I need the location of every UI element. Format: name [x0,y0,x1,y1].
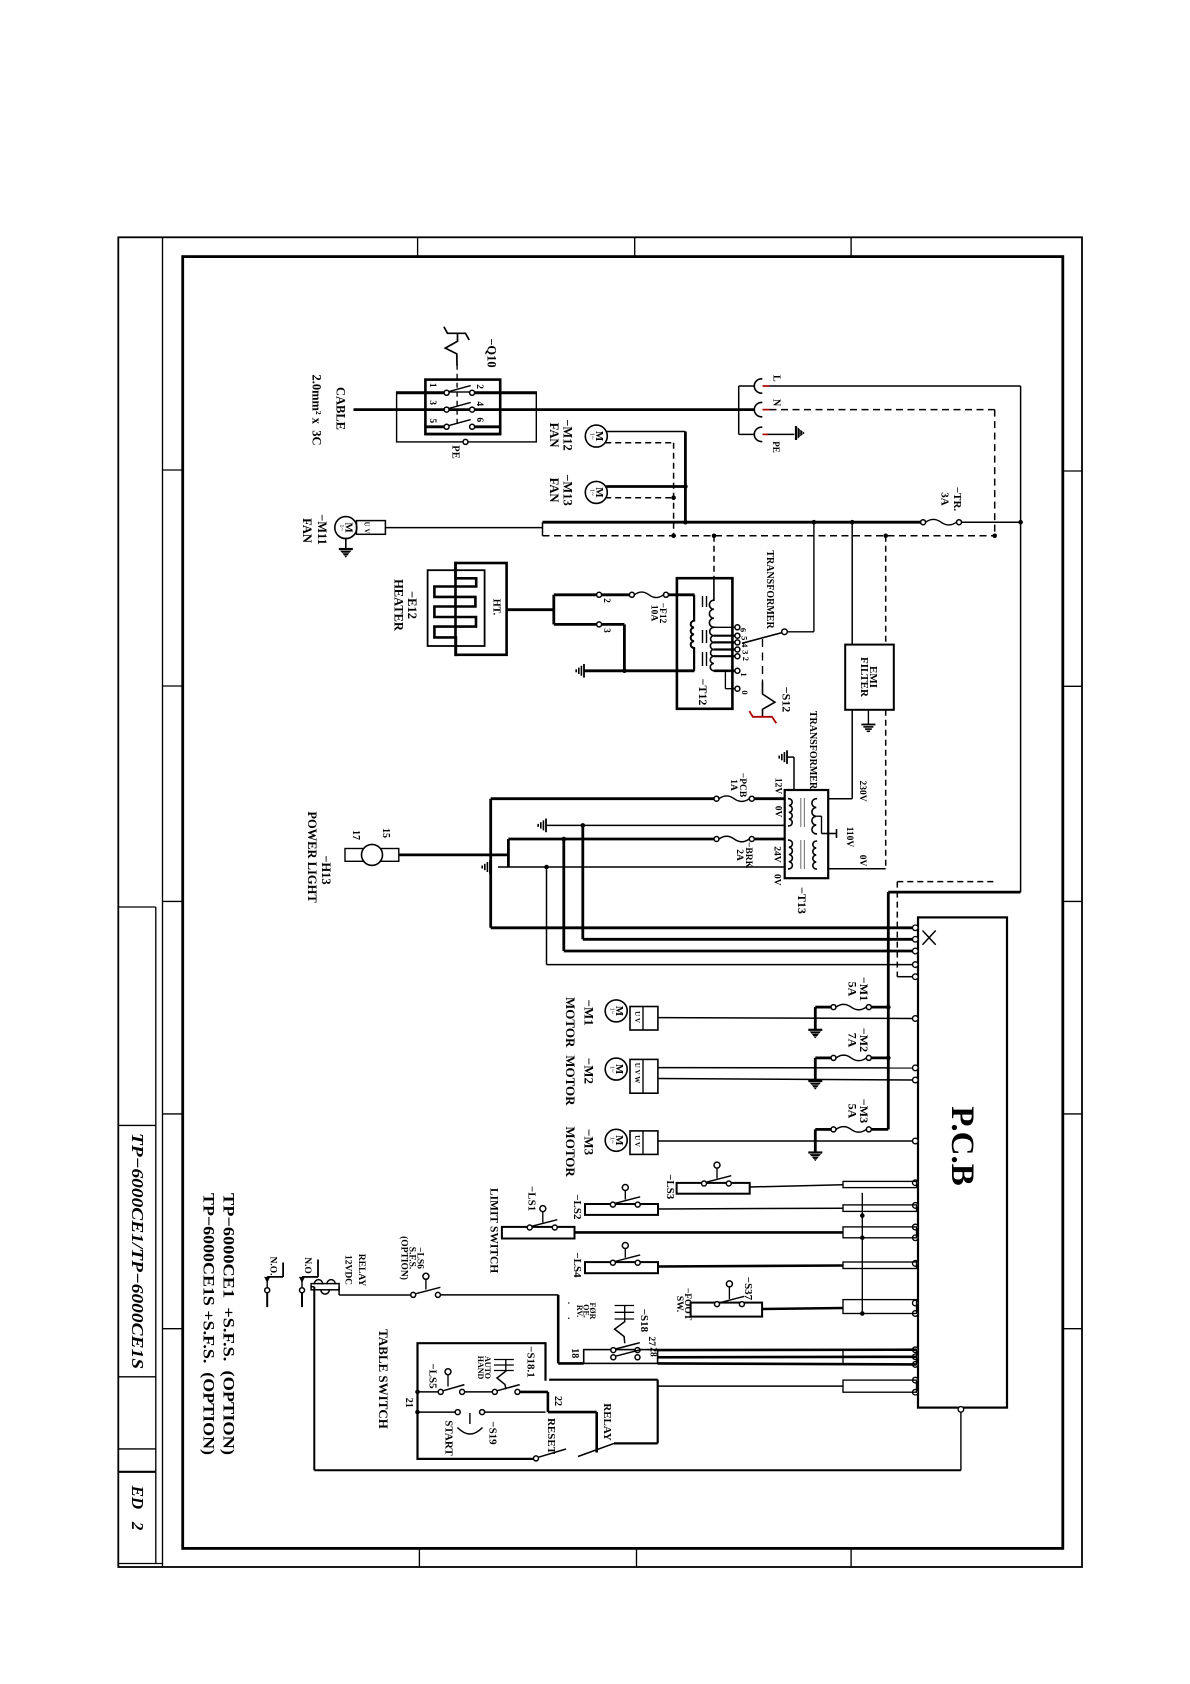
connector rect LS1 [843,1227,917,1238]
T12 tap 4 [714,641,735,643]
PCB box [918,917,1007,1407]
fan bus dashed [673,443,675,536]
svg-text:HT.: HT. [491,599,502,616]
limit switch LS2 [585,1204,658,1215]
bottom ruler tick 3 [850,1548,852,1567]
strip bottom dashed [543,535,995,537]
fuse TR [921,520,926,525]
junction M13b [671,495,676,500]
fan bus solid [684,432,687,523]
wire 18 net [658,1363,917,1364]
left ruler tick 1 [163,469,183,471]
PCB pin 7 [913,1065,919,1071]
wire lamp [399,854,509,857]
svg-text:N: N [771,399,782,407]
T12 secondary coil e [711,650,714,657]
ground T12 wire [584,669,695,672]
wire LS2 [658,1207,843,1210]
fuse M1 [831,1005,836,1010]
fuse M2 wire [815,1057,831,1060]
limit switch LS4 [585,1262,658,1273]
junction M1 fuse [886,1005,891,1010]
svg-text:−E12: −E12 [405,591,419,619]
T12 secondary coil d [710,642,714,649]
emi ground [861,724,875,726]
T13 sec coil 1 [812,799,816,834]
svg-text:24V: 24V [771,846,781,863]
motor M11 [335,517,357,539]
breaker Q10 link line [456,365,458,427]
motor M2 [605,1058,627,1080]
svg-text:7A: 7A [846,1033,860,1048]
strip top right [962,521,1021,523]
wire relay out [658,1385,843,1387]
svg-text:RELAY: RELAY [601,1403,613,1441]
title column divider 6 [118,1563,162,1565]
svg-text:−M1: −M1 [582,1000,597,1026]
svg-text:2: 2 [741,657,751,661]
wire LS1 [575,1231,844,1234]
wire 12V a [491,797,714,800]
T12 tap 1 [714,669,735,672]
svg-text:4: 4 [474,401,484,406]
wire N dashed down [994,410,996,536]
svg-text:−S12: −S12 [780,687,794,713]
T12 secondary coil a [709,600,714,627]
net 0V riser [581,825,584,939]
breaker Q10 contact 5-6 [444,424,449,429]
wire M11 [385,527,542,529]
ground M3 [808,1151,822,1153]
T13 core [800,798,802,827]
connector rect LS2 [843,1205,917,1212]
wire S18 r2 [658,1356,917,1359]
svg-text:−M12: −M12 [560,419,574,450]
top ruler tick 3 [850,237,852,256]
LS6 actuator [423,1273,429,1279]
live feed horiz [888,891,1020,894]
strip top [543,521,921,524]
wire 24V a [508,838,714,841]
switch S18.1 [492,1389,497,1394]
svg-text:FAN: FAN [547,478,561,503]
right ruler tick 3 [1063,900,1082,902]
svg-text:110V: 110V [844,827,854,848]
svg-text:28: 28 [647,1347,657,1357]
T12 core [702,596,704,607]
connector rect RELAY [843,1380,917,1392]
connector L [754,379,761,393]
PCB pin 8 [913,1077,919,1083]
T13 110V junction [816,815,821,817]
top ruler tick 2 [634,237,636,256]
transformer T13 box [785,790,829,878]
PCB pin 18 [913,1354,919,1360]
inlet stub L [739,385,755,387]
wire pcb pin2 [583,938,913,941]
svg-text:5A: 5A [846,1104,860,1119]
wire row1 a [418,1391,439,1393]
ground M11 [339,548,353,550]
wire 18 left [558,1362,584,1365]
drawing frame [183,257,1063,1549]
svg-text:2: 2 [474,384,484,389]
svg-text:21: 21 [403,1398,414,1408]
svg-text:RELAY: RELAY [356,1254,366,1287]
wire pcb pin1 [491,926,913,929]
breaker Q10 bottom bar [425,433,500,436]
title column divider 3 [118,1376,156,1378]
heater E12 outer box [456,563,507,655]
wire pcb pin5 stub [897,976,913,978]
T12 secondary coil c [711,636,714,643]
PCB pin 21 [913,1389,919,1395]
svg-text:1~: 1~ [589,489,596,496]
svg-text:U V W: U V W [633,1063,641,1084]
junction strip fans [683,520,688,525]
T13 ground wire [787,756,794,758]
wire pcb bottom [960,1412,962,1470]
title column divider 5 [118,1471,156,1473]
svg-text:22: 22 [552,1396,563,1406]
wire Q10 row5 left [425,425,444,428]
wire Q10 row1 right [475,391,537,394]
svg-text:3: 3 [602,628,612,633]
connector link [861,1193,863,1314]
svg-text:1~: 1~ [609,1137,616,1144]
junction S12 top [812,520,817,525]
terminal box M1 [630,1007,658,1031]
selector S18 comb [624,1306,626,1322]
title column divider 2 [118,1124,156,1126]
ground M11 stem [345,538,347,549]
link strip-T12 dashed [713,536,715,578]
wire M12 b [605,442,673,444]
wire 24V b [754,838,784,841]
svg-text:1~: 1~ [589,433,596,440]
PCB pin 15 [913,1300,919,1306]
lamp bracket [507,839,510,867]
junction strip L [1018,520,1023,525]
svg-text:FAN: FAN [547,423,561,448]
wire pcb pin4 [547,964,913,966]
net N dashed h [897,881,994,883]
svg-text:1~: 1~ [609,1008,616,1015]
emi 0V lead dashed [885,710,887,869]
fuse BRK 2A [714,837,719,842]
heater element meander [434,563,476,655]
junction 24V [562,837,567,842]
svg-text:2.0mm² x 3C: 2.0mm² x 3C [310,374,324,445]
PCB pin 9 [913,1138,919,1144]
junction M2 fuse [886,1056,891,1061]
wire coil-LS6 [339,1294,411,1296]
svg-text:.: . [566,1302,576,1304]
svg-text:TP−6000CE1/TP−6000CE1S: TP−6000CE1/TP−6000CE1S [128,1133,147,1369]
M3 ground drop [814,1129,817,1152]
contact NO 1 [265,1288,270,1293]
terminal box M3 [630,1131,658,1155]
connector rect S37 [843,1300,917,1314]
svg-text:LIMIT SWITCH: LIMIT SWITCH [488,1188,500,1273]
selector S18.1 comb [505,1359,507,1371]
T12 secondary lead [713,578,715,600]
relay box [549,1379,658,1381]
connector PE red tick [763,433,769,435]
svg-text:−T13: −T13 [795,887,809,914]
inlet stub PE [739,433,755,435]
PCB pin 19 [913,1362,919,1368]
wire 2 to F12 [602,593,630,596]
right ruler tick 2 [1063,685,1082,687]
svg-text:5: 5 [427,418,437,423]
T13 ground [786,750,788,764]
svg-text:230V: 230V [857,780,867,801]
svg-text:TRANSFORMER: TRANSFORMER [764,550,775,629]
PCB pin 1 [913,925,919,931]
switch S12 zigzag [763,683,775,717]
svg-text:3: 3 [427,400,437,405]
T12 primary coil [691,621,694,648]
transformer T12 box [677,578,733,709]
svg-text:−LS5: −LS5 [427,1363,439,1389]
fuse M2 out [871,1057,888,1060]
fuse M1 out [871,1006,888,1009]
strip left edge [542,522,544,536]
M2 ground drop [814,1058,817,1081]
junction dash d [992,534,997,539]
switch LS6 [411,1292,416,1297]
wire M13 b [605,497,673,499]
fuse M3 out [871,1128,888,1131]
breaker Q10 contact 3-4 [444,407,449,412]
svg-text:ED 2: ED 2 [128,1485,147,1531]
connector rect S18 [843,1350,917,1365]
right ruler tick 4 [1063,1113,1082,1115]
wire LS4 [658,1266,843,1267]
wire N dashed [770,409,995,411]
wire F12 to T12 [669,593,695,596]
T12 secondary coil b [710,627,714,635]
relay coil left lead [311,1286,314,1288]
PCB pin 4 [913,962,919,968]
motor M3 [605,1129,627,1151]
motor M1 [605,1000,627,1022]
net 0V bot riser [546,867,548,965]
svg-text:HEATER: HEATER [392,579,406,632]
svg-text:−S37: −S37 [742,1277,754,1301]
svg-text:U V: U V [633,1135,641,1147]
breaker Q10 contact 1-2 [444,390,449,395]
T12 tap 3 [714,648,735,650]
svg-text:−LS1: −LS1 [526,1186,538,1211]
live feed elbow [1020,522,1022,892]
junction link c [860,1311,865,1316]
svg-text:−M13: −M13 [560,474,574,505]
svg-text:PE: PE [771,441,781,453]
switch S18 box [584,1350,658,1364]
wire M2b [658,1079,913,1081]
right ruler tick 1 [1063,470,1082,472]
lamp H13 box [345,849,399,862]
svg-text:FILTER: FILTER [858,657,870,698]
svg-text:15: 15 [380,828,391,838]
T13 110V stub [822,833,837,835]
wire PE stub [768,433,794,435]
PCB X mark [923,931,936,945]
title column edge [155,907,157,1564]
svg-text:0V: 0V [771,874,781,886]
svg-text:2: 2 [602,598,612,603]
left ruler tick 5 [163,1328,183,1330]
emi 230V lead [851,710,853,799]
inlet backbone [738,386,740,434]
svg-text:−M11: −M11 [315,514,329,545]
svg-text:PE: PE [450,445,461,458]
net 24V riser [562,839,565,951]
junction 3-ground [622,669,627,674]
breaker Q10 outer box [397,392,537,442]
T12 primary lead [693,595,695,621]
terminal box M11 [357,521,386,535]
svg-text:1~: 1~ [338,524,345,531]
T12 tap 0 [724,672,726,689]
wire 0V bot [498,866,785,868]
svg-text:START: START [443,1420,455,1456]
svg-text:−M3: −M3 [582,1129,597,1156]
connector PE [754,427,761,441]
contact NO 2 [300,1288,305,1293]
svg-text:TRANSFORMER: TRANSFORMER [807,711,818,790]
lamp H13 [362,844,383,865]
wire L net [770,385,1021,387]
link S12 dashed [762,639,764,683]
svg-text:−T12: −T12 [696,679,710,706]
svg-text:−S18: −S18 [638,1309,650,1333]
T13 sec coil 2 [813,841,816,869]
wire 22 path [520,1391,548,1394]
wire M2a [658,1067,913,1069]
junction dash a [671,534,676,539]
svg-text:3: 3 [741,650,751,654]
junction M13a [683,484,688,489]
connector L red tick [763,385,770,387]
selector S12 arm [742,633,782,644]
svg-text:1A: 1A [728,779,738,791]
emi ground stem [867,710,869,724]
fuse M2 [831,1055,836,1060]
PCB pin 3 [913,948,919,954]
switch S18 row1 [611,1348,616,1353]
motor M12 [585,425,607,447]
svg-text:FAN: FAN [300,518,314,543]
wire row2 b [485,1411,546,1413]
selector S12 pivot [782,629,788,635]
bottom ruler tick 2 [636,1548,638,1567]
wire pcb pin3 [564,950,913,953]
junction strip emi [850,520,855,525]
fuse F12 [629,592,634,597]
wire M1 [658,1017,913,1020]
PCB pin 16 [913,1311,919,1317]
wire S12 up [787,631,814,633]
LS5 actuator [445,1369,451,1375]
wire 12V b [754,797,784,800]
EMI filter box [845,645,894,710]
junction link b [860,1236,865,1241]
PCB pin 12 [913,1224,919,1230]
svg-text:10A: 10A [649,605,659,622]
terminal PE circle [463,439,468,444]
selector S18.1 zigzag [497,1371,506,1388]
live feed drop [887,892,890,1129]
svg-text:CABLE: CABLE [334,387,348,430]
left ruler tick 3 [163,900,183,902]
svg-text:1: 1 [739,672,749,676]
svg-text:0V: 0V [857,855,867,867]
svg-text:0V: 0V [773,806,783,818]
wire Q10 row5 right [475,425,501,428]
ground PE arrow [795,426,797,440]
svg-text:L: L [771,375,782,382]
fuse M1 wire [815,1006,831,1009]
T12 secondary coil f [710,656,714,671]
T12 tap 2 [714,655,735,657]
wire L net down [1020,386,1022,522]
terminal box M2 [630,1059,658,1093]
net 18 riser [557,1295,560,1364]
svg-text:POWER LIGHT: POWER LIGHT [305,811,319,903]
PCB pin 14 [913,1261,919,1267]
PCB pin bottom [958,1407,964,1413]
wire LS3 [750,1185,843,1187]
svg-text:18: 18 [569,1348,580,1358]
PCB pin 11 [913,1203,919,1209]
wire 230V [828,798,852,800]
PCB pin 5 [913,974,919,980]
wire 0V mid [546,824,785,826]
wire 0V right [828,868,886,870]
svg-text:5: 5 [740,636,750,640]
title column divider 1 [118,906,156,908]
svg-text:12VDC: 12VDC [343,1255,353,1285]
left ruler tick 4 [163,1113,183,1115]
heater wire split [552,595,555,625]
junction t1 [415,1390,420,1395]
svg-text:6: 6 [739,628,749,632]
svg-text:RV.: RV. [575,1305,584,1317]
svg-text:−TR.: −TR. [951,487,963,512]
PCB pin 17 [913,1347,919,1353]
terminal 2 [597,592,602,597]
svg-text:MOTOR: MOTOR [563,1126,578,1177]
svg-text:(OPTION): (OPTION) [399,1236,410,1280]
wire 3 elbow [602,623,625,626]
switch S12 red [750,712,776,723]
svg-text:.: . [566,1317,576,1319]
wire M3 [658,1140,913,1142]
svg-text:−LS2: −LS2 [571,1194,583,1220]
right ruler tick 5 [1063,1328,1082,1330]
top ruler tick 1 [417,237,419,256]
svg-text:U V: U V [633,1011,641,1023]
svg-text:−M2: −M2 [582,1058,597,1084]
wire cable to Q10 [354,408,755,411]
svg-text:1~: 1~ [609,1066,616,1073]
PCB pin 13 [913,1235,919,1241]
wire row2 [418,1411,456,1413]
svg-text:N.O.: N.O. [268,1257,278,1276]
